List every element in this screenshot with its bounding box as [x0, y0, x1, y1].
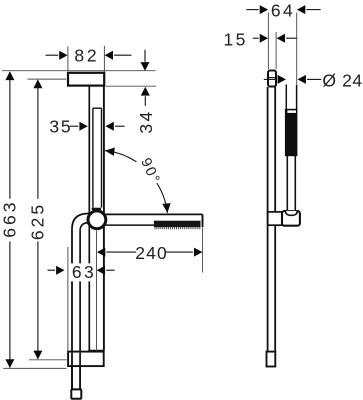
- svg-text:625: 625: [28, 202, 48, 240]
- svg-text:64: 64: [271, 0, 295, 20]
- svg-text:34: 34: [136, 109, 156, 133]
- svg-text:82: 82: [74, 46, 99, 66]
- svg-text:Ø 24: Ø 24: [322, 71, 362, 91]
- svg-text:240: 240: [135, 243, 168, 263]
- svg-text:663: 663: [0, 199, 20, 237]
- svg-text:35: 35: [49, 117, 72, 137]
- svg-text:63: 63: [72, 262, 96, 282]
- svg-text:15: 15: [223, 30, 247, 50]
